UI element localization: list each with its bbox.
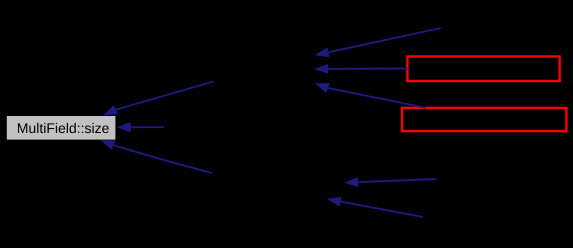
edge E6 (node C -> MultiField::size) bbox=[100, 140, 212, 173]
edge E5 (node B -> MultiField::size) bbox=[117, 122, 164, 132]
edge E3 (red box R2 -> node A) bbox=[315, 83, 426, 108]
edge E7 (node D -> node C) bbox=[344, 177, 436, 187]
node R2 (truncated node, red border) bbox=[402, 108, 566, 131]
label MultiField::size bbox=[18, 123, 109, 133]
edge E8 (node E -> node C) bbox=[327, 197, 423, 217]
node R1 (truncated node, red border) bbox=[407, 57, 559, 82]
edge E2 (red box R1 -> node A) bbox=[314, 64, 407, 74]
edge E4 (node A -> MultiField::size) bbox=[103, 82, 213, 116]
edge E1 (top-right node -> node A) bbox=[315, 28, 441, 57]
node MultiField::size (current node, grey box) bbox=[7, 116, 116, 140]
